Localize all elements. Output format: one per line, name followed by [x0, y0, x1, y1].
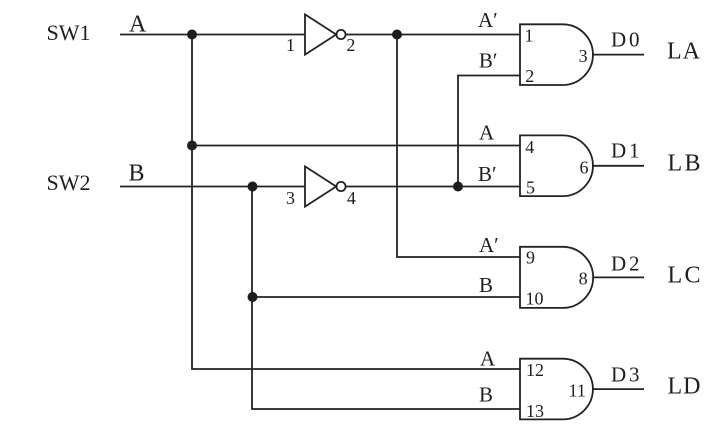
junction dot node B row4: [248, 182, 258, 192]
junction dot node A row1: [187, 30, 197, 40]
wire node B' vertical bus x=458 to AND1 pin2: [458, 76, 520, 187]
svg-text:9: 9: [526, 248, 535, 268]
wire node B vertical bus x=252 to AND4 pin13: [252, 187, 520, 410]
svg-text:A: A: [479, 121, 495, 145]
wire A input: [120, 34, 305, 36]
svg-text:2: 2: [525, 66, 534, 86]
svg-text:4: 4: [525, 137, 534, 157]
svg-text:1: 1: [286, 35, 295, 55]
svg-text:6: 6: [580, 158, 589, 178]
wire node A vertical bus x=192 to AND4 pin12: [192, 35, 520, 370]
junction dot node A row3: [187, 141, 197, 151]
svg-text:10: 10: [526, 289, 544, 309]
wire inverter1 output to AND1 pin1: [346, 34, 520, 36]
svg-text:LB: LB: [668, 150, 701, 176]
svg-text:2: 2: [346, 35, 355, 55]
AND gate U4 (D1): [520, 135, 593, 196]
AND gate U5 (D2): [520, 247, 593, 308]
svg-text:A: A: [129, 12, 147, 38]
wire D3 output: [593, 388, 644, 390]
wire D2 output: [593, 276, 644, 278]
svg-text:D0: D0: [611, 28, 640, 52]
svg-text:B′: B′: [479, 49, 498, 73]
svg-text:8: 8: [579, 269, 588, 289]
svg-text:D1: D1: [611, 138, 640, 162]
wire D0 output: [593, 54, 644, 56]
svg-text:SW2: SW2: [47, 170, 91, 195]
wire A to AND2 pin4: [192, 145, 520, 147]
inverter U2 bubble: [336, 182, 345, 191]
svg-text:11: 11: [569, 380, 586, 400]
svg-text:3: 3: [286, 188, 295, 208]
svg-text:12: 12: [526, 360, 544, 380]
svg-text:D3: D3: [611, 363, 640, 387]
svg-text:3: 3: [579, 46, 588, 66]
svg-text:13: 13: [526, 401, 544, 421]
svg-text:4: 4: [347, 188, 356, 208]
junction dot node B row6: [248, 292, 258, 302]
AND gate U3 (D0): [520, 24, 593, 85]
junction dot node A' row1: [392, 30, 402, 40]
svg-text:A′: A′: [478, 8, 498, 32]
svg-text:A: A: [480, 347, 496, 371]
svg-text:B: B: [479, 273, 493, 297]
svg-text:LC: LC: [668, 263, 701, 289]
svg-text:LA: LA: [667, 39, 701, 65]
svg-text:LD: LD: [668, 374, 701, 400]
svg-text:5: 5: [526, 178, 535, 198]
junction dot node B' row4: [453, 182, 463, 192]
wire inverter2 output to AND2 pin5: [346, 186, 520, 188]
svg-text:SW1: SW1: [47, 20, 91, 45]
wire node A' vertical bus x=397 to AND3 pin9: [397, 35, 520, 258]
inverter U1 triangle: [305, 14, 336, 54]
inverter U1 bubble: [336, 30, 345, 39]
svg-text:1: 1: [525, 26, 534, 46]
inverter U2 triangle: [305, 166, 336, 206]
wire B to AND3 pin10: [252, 296, 520, 298]
svg-text:D2: D2: [611, 251, 640, 275]
wire D1 output: [593, 165, 644, 167]
AND gate U6 (D3): [520, 359, 593, 420]
svg-text:B: B: [129, 161, 145, 187]
wire B input: [120, 186, 305, 188]
svg-text:A′: A′: [479, 233, 499, 257]
svg-text:B′: B′: [478, 162, 497, 186]
svg-text:B: B: [479, 383, 493, 407]
